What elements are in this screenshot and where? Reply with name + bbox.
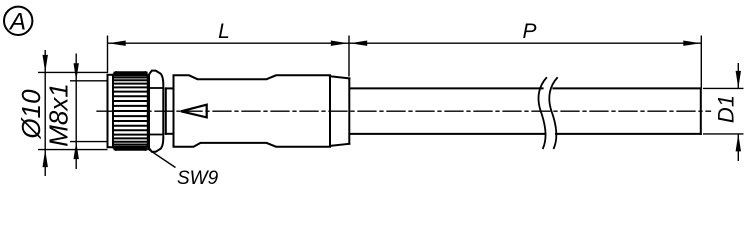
neck top edge: [166, 87, 174, 89]
nut bottom-left chamfer: [113, 147, 116, 150]
cable top edge left of break: [350, 87, 543, 89]
nut face strip top edge: [108, 74, 114, 76]
M8x1 top arrow: [74, 63, 79, 81]
D1 bottom arrow: [736, 134, 741, 152]
centerline: [97, 110, 711, 112]
svg-text:D1: D1: [714, 95, 739, 123]
knurl bottom edge: [116, 149, 146, 151]
nut end cap ring: [149, 71, 163, 152]
svg-text:A: A: [8, 9, 26, 36]
knurl right edge: [147, 76, 149, 145]
P left arrow: [350, 41, 368, 46]
cable break curve 2: [549, 78, 557, 148]
nut face strip bottom edge: [108, 146, 114, 148]
L dimension line: [108, 42, 350, 44]
connector nut face: [107, 75, 109, 147]
D1 top tick: [703, 87, 744, 89]
Ø10 dimension line: [44, 50, 46, 176]
knurl ridges: [115, 72, 147, 74]
ring lower silhouette line: [149, 134, 162, 136]
knurl top-right chamfer: [146, 72, 148, 76]
D1 dimension line upper: [737, 63, 739, 88]
knurl bottom-right chamfer: [146, 146, 148, 150]
P right arrow: [683, 41, 701, 46]
cable bottom edge right of break: [556, 133, 701, 135]
Ø10 top arrow: [43, 55, 48, 73]
boot top edge: [330, 76, 349, 78]
P dimension line: [349, 42, 702, 44]
svg-text:P: P: [522, 20, 536, 43]
svg-text:Ø10: Ø10: [16, 89, 46, 140]
Ø10 bottom arrow: [43, 150, 48, 168]
D1 top arrow: [736, 71, 741, 89]
neck face: [165, 88, 167, 133]
neck bottom edge: [166, 133, 174, 135]
svg-text:M8x1: M8x1: [44, 83, 74, 147]
L/P shared extension line: [348, 36, 350, 77]
P dimension extension line right: [700, 36, 702, 88]
svg-text:SW9: SW9: [177, 168, 219, 189]
nut top-left chamfer: [113, 72, 116, 75]
D1 bottom tick: [703, 133, 744, 135]
view marker circle A: [4, 7, 32, 35]
L left arrow: [108, 41, 126, 46]
L right arrow: [331, 41, 349, 46]
M8x1 top tick: [70, 80, 108, 82]
cable bottom edge left of break: [350, 133, 545, 135]
svg-text:L: L: [218, 20, 230, 43]
boot end face: [348, 78, 350, 143]
ring upper silhouette line: [149, 87, 162, 89]
Ø10 bottom tick: [38, 149, 108, 151]
Ø10 top tick: [38, 71, 108, 73]
M8x1 bottom arrow: [74, 142, 79, 160]
cable top edge right of break: [553, 87, 700, 89]
D1 dimension line lower: [737, 134, 739, 161]
cable end face: [700, 88, 702, 133]
M8x1 bottom tick: [70, 141, 108, 143]
knurl top edge: [116, 71, 146, 73]
L dimension extension line left: [107, 36, 109, 74]
M8x1 dimension line: [75, 54, 77, 170]
cable break curve 1: [538, 78, 546, 148]
connector body outline: [174, 75, 331, 146]
boot bottom edge: [330, 144, 349, 146]
orientation triangle: [181, 105, 207, 118]
nut face/knurl boundary: [112, 75, 114, 147]
SW9 leader line: [147, 149, 175, 168]
